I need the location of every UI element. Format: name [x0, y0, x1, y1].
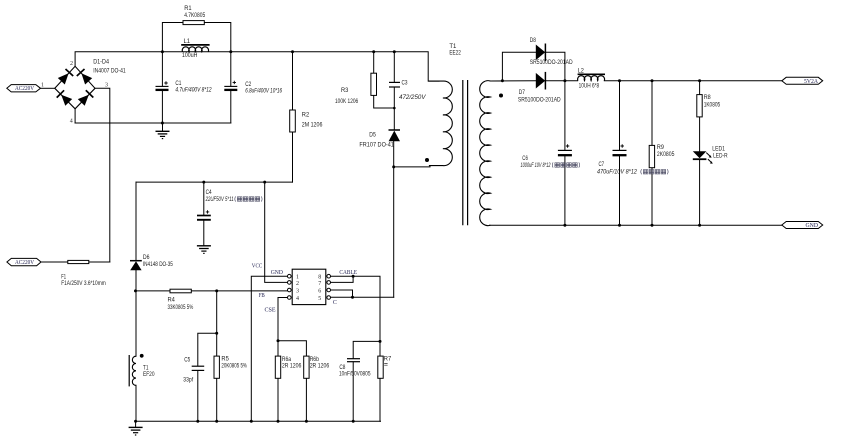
inductor L2	[578, 69, 605, 90]
svg-text:5: 5	[318, 296, 321, 302]
svg-text:R5: R5	[221, 357, 229, 363]
junction VCC rail / C4	[202, 181, 205, 184]
resistor R5	[214, 356, 247, 378]
svg-text:R6a: R6a	[282, 357, 292, 363]
wire R1 right riser	[204, 23, 231, 52]
junction pin7 pin8 tie	[352, 275, 355, 278]
wire C4 bottom to ground	[203, 221, 205, 246]
junction pin5 pin6 tie	[351, 296, 354, 299]
svg-text:D5: D5	[369, 133, 376, 139]
wire C8 jog	[353, 341, 380, 358]
svg-text:GND: GND	[271, 270, 284, 276]
wire C5 bottom	[197, 371, 199, 422]
resistor R3	[335, 73, 377, 105]
svg-text:C3: C3	[402, 81, 409, 87]
junction HV bus / C3 top	[393, 50, 396, 53]
junction FB line / D6 aux winding	[134, 289, 137, 292]
junction HV bus / R1 L1 right	[229, 50, 232, 53]
junction ground rail / pin1 GND	[250, 420, 253, 423]
svg-text:EE22: EE22	[449, 50, 461, 56]
svg-text:CABLE: CABLE	[339, 270, 357, 276]
svg-text:1: 1	[41, 83, 44, 89]
wire secondary bottom rail to GND tag	[490, 224, 782, 226]
LED1	[693, 146, 728, 164]
port GND	[782, 222, 823, 230]
capacitor C8	[339, 359, 371, 378]
wire C8 bottom	[352, 362, 354, 421]
svg-text:10nF/50V0805: 10nF/50V0805	[339, 372, 371, 378]
wire fuse F1 to riser	[89, 261, 110, 263]
svg-text:100K 1206: 100K 1206	[335, 99, 359, 105]
wire LED1 bottom	[699, 160, 701, 226]
C6 value Chinese annotation (high-freq low-ESR)	[552, 162, 579, 167]
wire bottom ground rail	[136, 420, 381, 422]
op-amp U1 controller IC 8-pin	[288, 269, 331, 304]
diode D8	[530, 38, 573, 66]
capacitor C6	[521, 144, 580, 169]
resistor R8	[697, 95, 721, 117]
svg-text:R3: R3	[341, 88, 349, 94]
junction drain / primary bottom	[392, 165, 395, 168]
wire R3 column	[373, 52, 375, 73]
wire C6 bottom	[564, 156, 566, 226]
junction 5V rail / R9	[651, 79, 654, 82]
diode D7	[518, 72, 561, 104]
wire R6a R6b top link	[278, 341, 306, 421]
wire C4 top stub	[203, 182, 205, 215]
svg-text:2: 2	[296, 281, 299, 287]
secondary winding	[480, 81, 503, 226]
wire R3 bottom jog	[374, 95, 395, 108]
svg-text:R6b: R6b	[310, 357, 320, 363]
port AC220V bottom	[7, 258, 41, 266]
svg-text:D1-D4: D1-D4	[93, 59, 109, 65]
svg-text:LED1: LED1	[712, 146, 725, 152]
wire R2 column	[292, 52, 294, 182]
C4 value Chinese annotation (high-freq low-ESR)	[235, 196, 262, 201]
capacitor C7	[597, 144, 668, 175]
svg-text:LED-R: LED-R	[713, 153, 728, 159]
svg-text:FB: FB	[259, 293, 265, 299]
junction GND rail / C6	[563, 224, 566, 227]
wire DC minus bus	[75, 122, 231, 124]
wire VCC rail	[136, 181, 293, 183]
junction ground rail / R5	[215, 420, 218, 423]
wire pin6 join pin5	[331, 290, 353, 297]
wire D7 cathode to L2	[545, 80, 577, 82]
core	[462, 80, 464, 225]
transformer T1 EE22	[425, 44, 503, 226]
junction VCC rail / pin2 drop	[263, 181, 266, 184]
svg-text:C5: C5	[184, 358, 191, 364]
svg-text:6.8uF/400V 10*16: 6.8uF/400V 10*16	[245, 89, 282, 95]
junction R3 C3 snubber node	[393, 107, 396, 110]
svg-text:R1: R1	[184, 6, 192, 12]
wire FB line with R4	[136, 290, 287, 292]
svg-text:22UF50V 5*11: 22UF50V 5*11	[205, 197, 234, 203]
junction HV bus / R3 top	[372, 50, 375, 53]
svg-text:F1A/250V 3.6*10mm: F1A/250V 3.6*10mm	[61, 281, 105, 287]
junction ground rail / T1 EF20	[134, 420, 137, 423]
svg-text:100uH: 100uH	[182, 53, 197, 59]
svg-text:4.7uF/400V 8*12: 4.7uF/400V 8*12	[175, 88, 212, 94]
wire R9 column	[651, 81, 653, 226]
svg-text:IN4007 DO-41: IN4007 DO-41	[93, 68, 126, 74]
wire T1 EF20 bottom	[135, 385, 137, 421]
wire VCC drop to pin2	[265, 182, 288, 282]
wire R8 LED column	[699, 81, 701, 152]
wire drain column	[393, 141, 395, 297]
ground symbol under C4	[197, 246, 211, 254]
svg-text:R7: R7	[384, 356, 392, 362]
svg-text:R9: R9	[657, 145, 665, 151]
svg-text:1: 1	[296, 275, 299, 281]
svg-text:SR5100DO-201AD: SR5100DO-201AD	[530, 60, 573, 66]
svg-text:T1: T1	[143, 366, 149, 372]
svg-text:FR107 DO-41: FR107 DO-41	[359, 143, 394, 149]
svg-text:2: 2	[70, 61, 73, 67]
svg-text:T1: T1	[449, 44, 457, 50]
junction HV bus / R2 top	[291, 50, 294, 53]
transformer T1 EF20 aux winding	[129, 354, 155, 387]
fuse F1	[61, 260, 105, 286]
svg-text:D6: D6	[143, 255, 150, 261]
svg-text:33K0805 5%: 33K0805 5%	[168, 305, 194, 311]
junction 5V rail / C7	[618, 79, 621, 82]
svg-text:GND: GND	[806, 223, 819, 229]
svg-text:33pf: 33pf	[183, 378, 193, 384]
svg-text:D7: D7	[519, 90, 526, 96]
port 5V2A	[782, 77, 823, 85]
diode D5	[359, 130, 400, 149]
wire D8 branch riser	[502, 52, 535, 80]
wire D8 cathode to drop	[545, 52, 565, 80]
svg-text:2R 1206: 2R 1206	[310, 364, 330, 370]
junction FB line / R5 top	[215, 289, 218, 292]
resistor R9	[649, 145, 675, 168]
diode D6	[130, 255, 173, 270]
primary winding	[428, 81, 452, 166]
svg-text:R2: R2	[302, 113, 310, 119]
bridge rectifier D1-D4	[55, 59, 126, 124]
svg-text:AC220V: AC220V	[15, 260, 35, 266]
wire R5 column	[216, 291, 218, 421]
svg-text:1000uF 10V 8*12: 1000uF 10V 8*12	[521, 163, 551, 169]
resistor R6a	[275, 356, 302, 378]
wire pin5 to drain column	[331, 296, 394, 298]
svg-text:472/250V: 472/250V	[399, 95, 427, 101]
svg-text:C2: C2	[245, 82, 252, 88]
svg-text:C7: C7	[599, 162, 605, 168]
svg-text:C1: C1	[175, 81, 182, 87]
capacitor C2	[224, 81, 282, 95]
wire C7 bottom	[619, 156, 621, 226]
port AC220V top	[7, 83, 44, 92]
svg-text:SR5100DO-201AD: SR5100DO-201AD	[518, 98, 561, 104]
svg-text:D8: D8	[530, 38, 537, 44]
ground symbol under C1	[156, 123, 170, 139]
wire pin8 CABLE to right column	[331, 276, 381, 421]
junction GND rail / LED1 R8	[698, 224, 701, 227]
wire bridge pin3 down to fuse	[95, 88, 110, 262]
capacitor C1	[156, 81, 213, 94]
wire secondary top to D7	[490, 80, 536, 82]
svg-text:EF20: EF20	[143, 372, 155, 378]
wire C2 bottom	[230, 90, 232, 123]
junction R5 / C5 tap	[215, 332, 218, 335]
capacitor C5	[183, 358, 204, 384]
svg-text:C8: C8	[339, 365, 346, 371]
svg-text:20K0805 5%: 20K0805 5%	[221, 363, 247, 369]
svg-text:2K0805: 2K0805	[657, 152, 675, 158]
svg-text:VCC: VCC	[252, 263, 262, 269]
wire R6a column	[277, 341, 279, 421]
svg-text:4.7K0805: 4.7K0805	[184, 13, 206, 19]
svg-text:2R 1206: 2R 1206	[282, 364, 302, 370]
svg-text:1K0805: 1K0805	[704, 102, 721, 108]
junction CABLE column / C8 R7 top	[379, 340, 382, 343]
svg-text:470uF/10V 8*12: 470uF/10V 8*12	[597, 170, 638, 176]
svg-text:C4: C4	[206, 190, 213, 196]
svg-text:7: 7	[318, 281, 321, 287]
junction HV bus / R1 L1 left	[161, 50, 164, 53]
wire C3 bottom to D5	[393, 87, 395, 130]
junction ground rail / R6a	[277, 420, 280, 423]
wire C6 column	[564, 81, 566, 150]
svg-text:R4: R4	[168, 297, 176, 303]
svg-text:6: 6	[318, 288, 321, 294]
junction secondary top / D8 branch	[501, 79, 504, 82]
resistor R2	[290, 110, 323, 132]
resistor R4	[168, 289, 194, 311]
resistor R1	[183, 6, 206, 25]
junction GND rail / R9	[651, 224, 654, 227]
svg-text:5V2A: 5V2A	[804, 79, 819, 85]
junction CSE node / R6a R6b	[277, 339, 280, 342]
wire pin7 join pin8	[331, 276, 354, 282]
wire pin1 to ground rail	[251, 276, 287, 421]
wire C7 column	[619, 81, 621, 150]
wire AC input line to bridge pin1	[41, 87, 55, 89]
inductor L1	[181, 39, 209, 59]
svg-text:C: C	[333, 300, 337, 306]
wire D6 upper column	[135, 182, 137, 260]
junction GND rail / C7	[618, 224, 621, 227]
svg-text:IN4148 DO-35: IN4148 DO-35	[143, 262, 174, 268]
resistor R7	[378, 356, 392, 378]
wire C3 D5 column top	[393, 52, 395, 82]
svg-text:4: 4	[70, 118, 73, 124]
ground symbol bottom left	[129, 421, 143, 435]
svg-text:2M 1206: 2M 1206	[302, 123, 323, 129]
wire top HV bus	[75, 52, 439, 81]
svg-text:CSE: CSE	[265, 307, 276, 313]
capacitor C4	[197, 190, 262, 220]
wire L2 to 5V2A tag	[604, 80, 782, 82]
junction D7 D8 cathodes / C6	[563, 79, 566, 82]
wire D6 anode to FB node	[135, 270, 137, 356]
svg-text:3: 3	[105, 83, 108, 89]
wire AC tag to fuse F1	[41, 261, 68, 263]
junction minus bus / C1 ground	[161, 122, 164, 125]
wire primary bottom hook	[394, 166, 430, 167]
C7 value Chinese annotation (high-freq low-ESR)	[641, 169, 668, 174]
junction ground rail / C5	[196, 420, 199, 423]
wire C2 top column	[230, 52, 232, 86]
svg-text:C6: C6	[522, 156, 528, 162]
svg-text:R8: R8	[704, 95, 712, 101]
svg-text:4: 4	[296, 296, 299, 302]
svg-text:F1: F1	[61, 275, 66, 281]
junction ground rail / C8	[352, 420, 355, 423]
svg-text:10UH 6*8: 10UH 6*8	[579, 84, 600, 90]
wire R1 left riser	[162, 23, 183, 52]
junction 5V rail / R8	[698, 79, 701, 82]
wire bridge bottom stub to minus bus	[74, 109, 76, 123]
wire C1 bottom	[161, 90, 163, 123]
resistor R6b	[304, 356, 330, 378]
capacitor C3	[389, 81, 427, 101]
svg-text:3: 3	[296, 288, 299, 294]
svg-text:AC220V: AC220V	[15, 86, 35, 92]
wire C1 column	[161, 52, 163, 86]
wire pin4 to current sense node	[278, 298, 287, 341]
junction ground rail / R6b	[305, 420, 308, 423]
svg-text:8: 8	[318, 275, 321, 281]
wire C5 jog	[198, 333, 217, 366]
